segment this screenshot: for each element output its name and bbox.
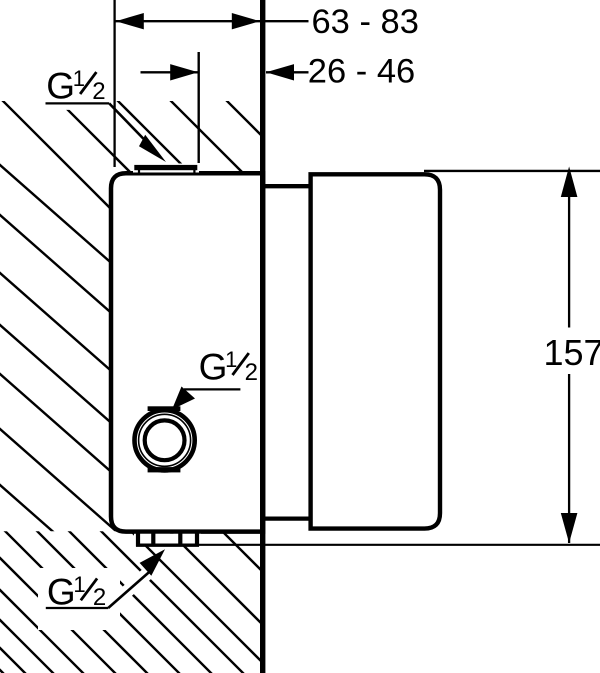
svg-text:2: 2 (245, 359, 258, 386)
svg-text:1: 1 (225, 347, 237, 372)
svg-text:157: 157 (544, 332, 600, 373)
svg-text:1: 1 (73, 66, 85, 91)
svg-text:1: 1 (73, 572, 85, 597)
svg-text:G: G (47, 572, 76, 613)
svg-text:63 - 83: 63 - 83 (312, 3, 419, 41)
svg-text:G: G (46, 65, 75, 106)
svg-text:2: 2 (92, 78, 105, 105)
svg-text:G: G (199, 346, 228, 387)
svg-text:26 - 46: 26 - 46 (308, 52, 415, 90)
